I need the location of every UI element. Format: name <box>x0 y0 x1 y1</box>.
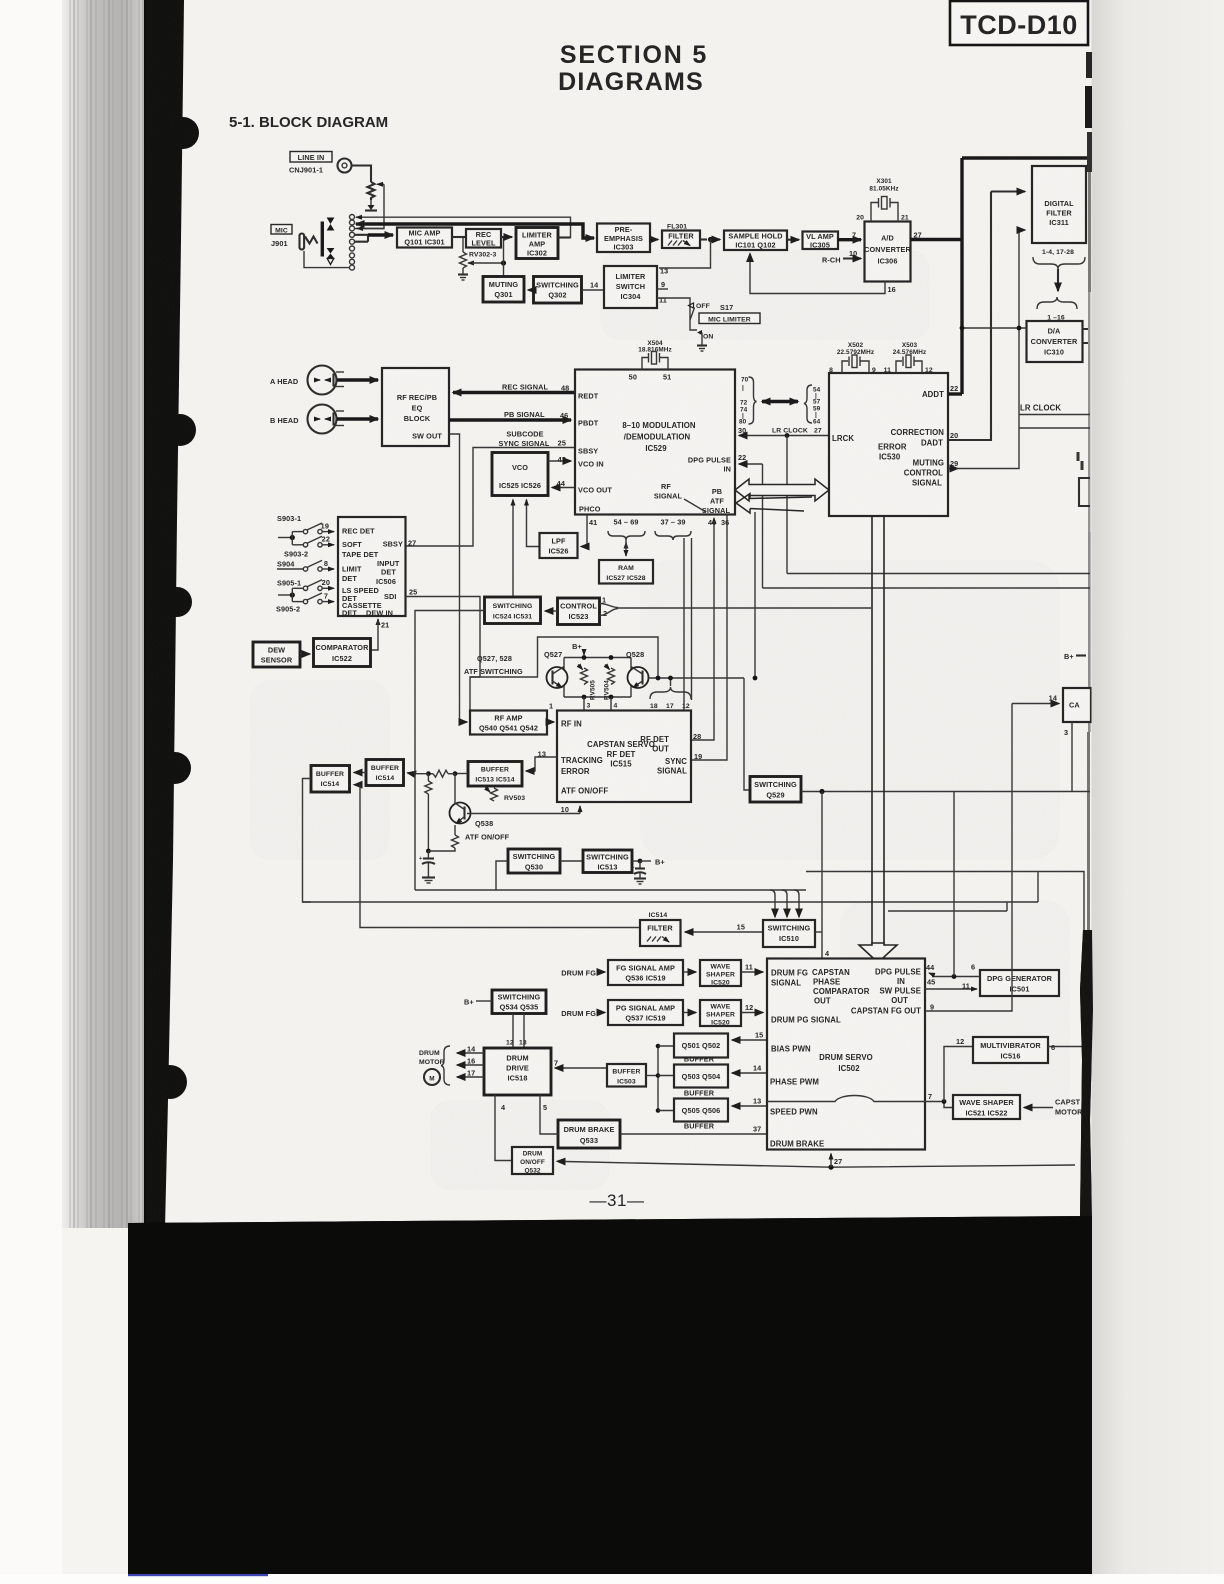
wire: VCO bottom pin from LPF <box>527 500 540 547</box>
brake DRUM BRAKE Q533 <box>558 1120 620 1148</box>
shaper WAVE SHAPER IC520 <box>700 960 741 987</box>
fat arrow: IC529 bus to IC530 (double headed) <box>762 400 798 403</box>
wire: DPG pulse in from bus <box>739 464 763 588</box>
wire: dew sensor to comparator <box>300 653 310 655</box>
wire: IC529 pin 44 to VCO <box>552 487 575 489</box>
wire: control line from IC523 <box>618 607 871 609</box>
wire: multivibrator pin 12 feed <box>944 1037 973 1102</box>
wire: capstan motor fg into wave shaper <box>1024 1098 1083 1117</box>
wire: S905 common feed <box>278 588 303 601</box>
wire: MIC AMP to REC LEVEL <box>452 236 466 238</box>
mic jack body J901 <box>300 218 335 265</box>
bus D: drum servo aux line <box>888 902 1007 911</box>
resistor: Q538 base divider <box>425 774 432 854</box>
amp FG SIGNAL AMP Q536 IC519 <box>608 960 683 985</box>
bus A: ATF frame bottom long bus <box>415 611 1084 1166</box>
vco VCO IC525 IC526 <box>492 453 548 496</box>
box CAPSTAN (cut by page edge) <box>1063 688 1091 722</box>
potentiometer RV504 <box>604 665 618 711</box>
crystal X504 <box>629 340 672 382</box>
wire: IC510 pin 4 to drum servo <box>815 932 830 958</box>
wire: buffer node chain <box>646 1044 674 1113</box>
wire: VCO bottom pin to switching IC524 <box>512 500 514 598</box>
label DET DEW IN inside IC506 <box>342 608 393 617</box>
wires: Q534/Q535 to drum drive pins 12 13 <box>506 1014 527 1049</box>
pin 40 of IC529 to IC515 pin 28 <box>691 518 716 740</box>
wire: filter output node <box>700 237 720 242</box>
pin 29 MUTING CONTROL wire to digital filter <box>948 230 1025 469</box>
capacitor: IC513 bypass <box>631 861 646 884</box>
wire: sample hold to VL AMP <box>787 239 799 241</box>
wire: IC510 to filter <box>685 923 763 933</box>
filter FILTER IC514 <box>640 920 681 946</box>
crystal X301 <box>856 178 909 222</box>
label RF SIGNAL leader inside IC529 <box>654 482 706 512</box>
faint scan bleed-through blobs <box>250 250 1070 1190</box>
box SWITCHING Q530 <box>508 849 560 873</box>
wire: wiper line to jack contact <box>357 228 384 230</box>
wire: capstan box pin 3 <box>1064 722 1072 792</box>
wire: IC304 pin 14 to Q302 <box>582 281 605 291</box>
switch S903-2 <box>284 535 334 559</box>
torn right page edge <box>1086 52 1092 78</box>
wire: Q529 node down to drum servo pin 4 path <box>821 792 823 959</box>
pin labels left side IC529 <box>557 392 613 514</box>
crystal X502 <box>829 342 876 374</box>
buffer BUFFER IC513 IC514 <box>468 762 522 787</box>
buffer Q503 Q504 <box>674 1065 728 1098</box>
block RF REC/PB EQ BLOCK <box>382 368 449 446</box>
label LR CLOCK right <box>1019 404 1090 415</box>
transistor Q538 <box>450 774 510 842</box>
motor DRUM MOTOR <box>419 1050 445 1085</box>
amp RF AMP Q540 Q541 Q542 <box>470 711 547 735</box>
right page margin <box>1092 0 1224 1584</box>
wire: buffer chain with resistor <box>408 770 469 777</box>
wire: pre-emphasis to filter <box>650 238 658 240</box>
wire: VCO to IC529 pin 43 <box>548 460 571 462</box>
connector CNJ901-1 <box>289 159 352 175</box>
wire: REC LEVEL to LIMITER AMP <box>501 236 512 238</box>
brace at drum motor <box>441 1046 450 1085</box>
label DRUM FG (fg amp input) <box>561 969 605 978</box>
buffer BUFFER IC503 <box>607 1064 646 1087</box>
switch S904 <box>277 559 334 571</box>
label DRUM FG (pg amp input) <box>561 1009 605 1018</box>
wire: drum servo pin 14 to Q503/Q504 <box>732 1064 767 1074</box>
switch block LIMITER SWITCH IC304 <box>604 266 657 308</box>
wire: drum servo pin 13 to Q505/Q506 <box>732 1097 767 1107</box>
pin 22 ADDT wire <box>922 384 962 399</box>
head A <box>270 366 344 395</box>
buffer BUFFER IC514 (left) <box>311 766 350 793</box>
amp LIMITER AMP IC302 <box>516 228 558 259</box>
converter A/D IC306 <box>864 222 911 282</box>
pin 25 SDI out of IC506 <box>406 588 481 678</box>
wire: limiter amp output <box>558 236 571 238</box>
box SWITCHING Q302 <box>534 277 582 304</box>
buffer BUFFER IC514 (second) <box>366 760 404 786</box>
potentiometer RV302-3 <box>458 238 504 280</box>
resistor: Q538 emitter <box>428 825 458 851</box>
fat hollow arrow: PB ATF signal into IC529 <box>736 494 812 514</box>
label PB ATF SIGNAL inside IC529 <box>702 487 731 515</box>
fat hollow arrow: error correction to drum servo <box>859 516 897 963</box>
ic input det IC506 (soft tape det) <box>338 517 406 617</box>
brace above D/A 1-16 <box>1037 297 1077 322</box>
connector stub at page edge <box>1077 452 1084 470</box>
supply B+ at Q527/Q528 <box>572 642 584 655</box>
wire: Q530 input from bus A <box>496 861 508 890</box>
pin 13 tracking error wire to buffer <box>526 750 557 772</box>
wire: left buffer lower input from bus C <box>354 785 368 928</box>
wire: drum drive pin 4 to Q532 <box>495 1095 512 1161</box>
pin 11 of IC304 <box>657 296 690 319</box>
box CONTROL IC523 <box>558 598 600 625</box>
transistor Q527 <box>544 650 568 688</box>
wire: jack sleeve return <box>304 251 350 268</box>
bus B: buffer bus to right <box>303 872 1039 902</box>
wire: fg amp to wave shaper <box>683 971 696 973</box>
box SWITCHING Q534 Q535 <box>492 990 546 1014</box>
bus: LR clock long bus 1 <box>787 573 1090 575</box>
wire: drum drive pin 5 to Q533 <box>540 1095 558 1134</box>
wire: SBSY from IC506 <box>406 448 575 547</box>
wire: capstan box pin 14 feed <box>1012 694 1059 704</box>
node: SW OUT into RF AMP arrow <box>463 721 467 723</box>
box SWITCHING Q529 <box>750 777 801 803</box>
partial box at page edge <box>1079 478 1090 506</box>
servo DRUM SERVO IC502 <box>767 959 925 1150</box>
shaper WAVE SHAPER IC521 IC522 <box>953 1095 1020 1119</box>
wire: IC529 pin 41 PHCO to LPF <box>581 515 597 547</box>
wire: S903 common feed <box>278 532 303 545</box>
wire: wave shaper to drum servo pin 11 <box>741 963 763 973</box>
comparator COMPARATOR IC522 <box>314 639 371 667</box>
multivibrator MULTIVIBRATOR IC516 <box>973 1037 1048 1063</box>
wire: pin 7 line with hop inside IC502 <box>767 1092 953 1108</box>
box DRUM ON/OFF Q532 <box>512 1147 553 1175</box>
brace under digital filter <box>1033 257 1085 269</box>
amp MIC AMP Q101 IC301 <box>397 228 452 248</box>
sensor DEW SENSOR <box>253 642 300 667</box>
supply B+ at Q534 <box>464 998 492 1007</box>
wire: drum on/off control line from right <box>557 1161 1075 1169</box>
wire: pg amp to wave shaper 2 <box>683 1012 696 1014</box>
wire: Q529 output bus to page edge <box>801 789 1090 794</box>
filter FL301 <box>662 231 700 249</box>
wire: PB ATF vertical to Q528 node <box>754 512 756 678</box>
box SWITCHING IC510 <box>763 920 815 947</box>
wire: Q538 base to IC515 pin 10 <box>467 805 580 814</box>
paper noise overlay <box>0 0 1 1</box>
label MIC <box>271 225 292 235</box>
ic DIGITAL FILTER IC311 <box>1032 166 1086 243</box>
wire: A/D pin 16 feedback to sample hold <box>750 254 896 295</box>
generator DPG GENERATOR IC501 <box>980 970 1059 996</box>
hooks: bus A drops into switching IC510 <box>770 890 799 917</box>
wire: filter node branch to limiter switch pin 13 <box>659 240 711 269</box>
potentiometer RV503 <box>484 786 525 802</box>
pins 37-39 brace <box>655 518 692 712</box>
switch S905-1 <box>277 578 334 591</box>
wire: D/A input from A/D bus <box>960 326 1027 331</box>
wire: VL AMP to A/D pin 7 <box>838 231 861 240</box>
wire: Q533 to drum servo pin 37 <box>620 1125 767 1135</box>
wire: mic contacts to MIC AMP <box>354 235 393 242</box>
label SUBCODE SYNC SIGNAL <box>499 430 550 449</box>
pin 9 of IC304 <box>657 280 668 289</box>
wire: IC523 to IC524 <box>545 610 558 612</box>
shaper WAVE SHAPER IC520 (second) <box>700 1000 741 1027</box>
wire: lower clock line to page edge <box>1019 427 1090 429</box>
wire: Q527/Q528 collector rail <box>564 655 631 699</box>
left black binder strip <box>144 0 184 1228</box>
resistor: line-in attenuator <box>368 182 375 200</box>
amp PG SIGNAL AMP Q537 IC519 <box>608 1000 683 1025</box>
wire: line bus lower (thick, to pre-emphasis) <box>356 224 594 238</box>
wire: vertical from Q529 bus into DPG node <box>953 792 955 977</box>
ic CAPSTAN SERVO RF DET IC515 <box>557 711 691 803</box>
fat hollow arrow: IC529/IC530 ATF data (double headed) <box>735 479 829 501</box>
node: rec level junction <box>501 237 506 277</box>
box MUTING Q301 <box>483 277 524 303</box>
ground under attenuator <box>365 200 377 211</box>
head B <box>270 405 344 434</box>
wire: B+ stub at page edge <box>1064 652 1086 661</box>
wire: multivibrator pin 6 to page edge <box>1048 1043 1090 1052</box>
wire: line-in jack to attenuator <box>352 166 371 183</box>
label LINE IN <box>290 152 332 163</box>
wire: Q528 output node <box>649 676 758 681</box>
box SWITCHING IC513 <box>583 850 632 873</box>
wire: R-CH input pin 10 <box>822 249 861 265</box>
amp PRE-EMPHASIS IC303 <box>597 224 650 253</box>
switch S17 MIC LIMITER <box>689 303 761 341</box>
pin 36 of IC529 to IC515 pin 19 <box>691 515 729 761</box>
switch S903-1 <box>277 514 334 534</box>
transistor Q528 <box>626 650 649 688</box>
wires: drum drive to motor pins 14 16 17 <box>457 1045 484 1078</box>
wire: DPG generator to drum servo pin 44 <box>926 963 980 979</box>
bus C: buffer lower bus to filter IC514 <box>368 927 640 929</box>
converter D/A IC310 <box>1027 321 1089 362</box>
crystal X503 <box>884 342 933 374</box>
wire: B head to EQ block <box>337 417 378 420</box>
driver DRUM DRIVE IC518 <box>484 1048 551 1095</box>
wire: Q530 to switching IC513 <box>560 860 583 862</box>
ram RAM IC527 IC528 <box>599 560 653 584</box>
wire: drum servo pin 45 to DPG pin 11 <box>925 978 977 991</box>
ic 8-10 MODULATION/DEMODULATION IC529 <box>575 370 735 515</box>
brace pins 18 17 12 into IC515 <box>650 680 691 710</box>
wire: A head to EQ block <box>337 378 378 381</box>
wire: line bus upper (to limiter amp output node) <box>356 217 571 237</box>
box SAMPLE HOLD IC101 Q102 <box>724 231 787 251</box>
supply B+ at IC513 <box>632 858 665 867</box>
pins 1,2 of IC523 merge <box>600 596 619 619</box>
filter LPF IC526 <box>540 533 578 558</box>
jack contact circles <box>350 215 355 271</box>
wire: attenuator wiper tap <box>354 184 384 228</box>
pin 30 LR CLOCK wire to IC530 LRCK <box>738 426 829 574</box>
capacitor: ATF filter (polarized) <box>419 851 435 883</box>
brace pins 54,57,59,64 of IC530 <box>804 385 821 426</box>
bottom black band <box>128 1216 1092 1574</box>
wire: ATF frame top rail <box>470 637 658 711</box>
box SWITCHING IC524 IC531 <box>485 597 541 624</box>
label DPG PULSE IN pin 22 <box>688 453 746 474</box>
wire: REC SIGNAL (IC529 pin 48 to EQ block) <box>453 383 575 393</box>
wire: node down to switching Q529 <box>744 678 750 790</box>
wire: A/D pin 27 output (thick bus to ADDT / off-page) <box>911 158 1091 394</box>
wire: drum servo pin 15 to Q501/Q502 <box>732 1031 767 1041</box>
wire: PB SIGNAL (EQ block to IC529 pin 46) <box>449 410 571 420</box>
wire: Q302 to Q301 <box>528 289 534 291</box>
wire: drum servo pin 27 bottom <box>831 1154 842 1168</box>
ground at S17 <box>697 333 707 352</box>
buffer Q505 Q506 <box>674 1099 728 1131</box>
amp VL AMP IC305 <box>803 232 839 250</box>
switch S905-2 <box>276 592 334 614</box>
wire: drum servo pin 9 capstan fg out <box>925 704 1012 1012</box>
label Q527,528 ATF SWITCHING <box>464 654 523 676</box>
pin 20 DADT wire to digital filter <box>948 192 1025 441</box>
wire: RF AMP to IC515 pin 1 <box>547 702 554 723</box>
arrow: digital filter to D/A <box>1057 269 1059 291</box>
TITLE: TCD-D10 box <box>950 1 1088 45</box>
buffer Q501 Q502 <box>674 1034 728 1064</box>
wire: wave shaper 2 to drum servo pin 12 <box>741 1003 763 1013</box>
bus: DPG pulse long bus 2 <box>763 587 1091 589</box>
potentiometer RV505 <box>578 665 597 711</box>
pins 54-69 brace to RAM <box>608 518 645 557</box>
wire: SW OUT to RF AMP <box>449 434 465 722</box>
wire: buffer IC503 to drum drive pin 7 <box>554 1059 607 1069</box>
ic ERROR CORRECTION IC530 <box>829 373 948 516</box>
box REC LEVEL <box>466 229 501 248</box>
wire: left buffer to bus B <box>303 779 312 903</box>
pins 70-80 brace right of IC529 <box>739 377 757 426</box>
wire: buffer to buffer arrow <box>354 772 366 774</box>
pin 21 dew in from comparator <box>371 619 390 650</box>
